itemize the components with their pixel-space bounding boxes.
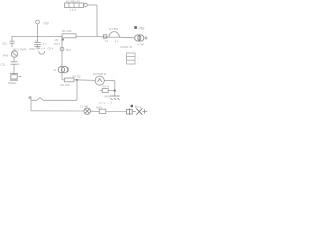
- node junction A: [61, 38, 63, 40]
- svg-text:: :: : :: [113, 76, 116, 80]
- wire: [90, 110, 99, 112]
- relay K1: [65, 3, 88, 8]
- svg-text:R3 1k: R3 1k: [103, 85, 110, 89]
- wire: [13, 64, 15, 73]
- svg-text:TP1: TP1: [66, 48, 72, 52]
- wire: [76, 36, 97, 38]
- svg-text:NPN: NPN: [105, 94, 111, 98]
- net label +5V flag: [134, 26, 145, 30]
- wire: [104, 80, 115, 82]
- battery BT1: [127, 108, 133, 114]
- svg-text:R2 220: R2 220: [61, 83, 70, 87]
- wire: [132, 111, 136, 113]
- wire with hop: [31, 98, 77, 101]
- svg-text:CONN J3: CONN J3: [120, 45, 132, 49]
- wire bottom rail: [31, 110, 84, 112]
- connector J3: [127, 53, 136, 64]
- wire lower net: [62, 79, 65, 81]
- svg-text:+5V: +5V: [139, 27, 146, 31]
- switch S1: [99, 109, 106, 113]
- svg-text:4.7uF: 4.7uF: [137, 43, 144, 47]
- motor M1: [95, 76, 104, 85]
- svg-text:1 1 4: 1 1 4: [70, 8, 77, 12]
- svg-text:R1 10k: R1 10k: [62, 29, 72, 33]
- resistor R2: [65, 78, 75, 82]
- wire: [142, 111, 147, 113]
- resistor R3: [102, 89, 108, 93]
- svg-text:16MHz: 16MHz: [8, 81, 17, 85]
- crystal Y1: [10, 74, 21, 81]
- wire: [144, 37, 148, 39]
- svg-text:4 7 4: 4 7 4: [99, 101, 105, 105]
- svg-text:24 4.4: 24 4.4: [37, 46, 45, 50]
- node +5V terminal: [36, 20, 40, 24]
- svg-text:MOTOR D: MOTOR D: [93, 72, 106, 76]
- svg-text:4 7: 4 7: [43, 42, 47, 46]
- svg-text:+4: +4: [53, 68, 57, 72]
- node terminal D: [30, 97, 32, 111]
- svg-text:LS 4R: LS 4R: [80, 105, 88, 109]
- lamp DS1: [84, 108, 90, 114]
- wire: [76, 80, 78, 100]
- lamp DS2: [136, 108, 142, 114]
- node TP1 terminal: [60, 47, 64, 51]
- svg-text:3 4: 3 4: [115, 40, 119, 44]
- svg-text:::: ::: [138, 55, 140, 59]
- connector J2: [58, 66, 68, 72]
- svg-text:K1 RELAY: K1 RELAY: [66, 0, 80, 4]
- capacitor C5: [34, 37, 41, 47]
- wire: [37, 24, 39, 37]
- svg-text:Q1 BC: Q1 BC: [109, 27, 119, 31]
- wire: [97, 36, 109, 39]
- wire: [96, 5, 98, 37]
- wire main horizontal net: [12, 36, 62, 38]
- capacitor C4 polarized: [135, 34, 144, 41]
- wire: [119, 36, 135, 39]
- svg-text:+5V: +5V: [43, 21, 50, 25]
- capacitor C3: [11, 62, 18, 64]
- svg-text:P= 4: P= 4: [135, 105, 142, 109]
- resistor R1: [62, 34, 76, 38]
- svg-text:12: 12: [105, 39, 109, 43]
- wire: [106, 110, 126, 112]
- capacitor C2: [10, 37, 15, 48]
- node junction C: [114, 90, 116, 92]
- svg-text:OUT: OUT: [54, 42, 60, 46]
- svg-text:R2 D5: R2 D5: [73, 75, 81, 79]
- diode D1: [103, 35, 106, 38]
- wire: [114, 81, 116, 96]
- wire loop: [39, 51, 45, 54]
- svg-text:→ 2: → 2: [107, 101, 113, 105]
- svg-text:C: C: [35, 39, 37, 43]
- node junction B: [76, 79, 78, 81]
- transistor Q1: [109, 32, 119, 38]
- wire: [61, 37, 63, 80]
- net label flag: [131, 105, 142, 109]
- ground: [35, 47, 41, 48]
- svg-text:C8 4: C8 4: [48, 47, 54, 51]
- svg-text:SW1: SW1: [96, 105, 103, 109]
- svg-text:C10: C10: [2, 41, 8, 45]
- svg-text:::: ::: [138, 60, 140, 64]
- svg-text:GND: GND: [29, 47, 35, 51]
- svg-text:R40: R40: [3, 53, 9, 57]
- wire: [100, 90, 102, 92]
- svg-text:C11: C11: [1, 62, 6, 66]
- wire: [13, 57, 15, 61]
- potentiometer R40: [11, 51, 17, 57]
- ground: [110, 96, 120, 100]
- wire: [74, 79, 95, 82]
- wire: [87, 4, 97, 6]
